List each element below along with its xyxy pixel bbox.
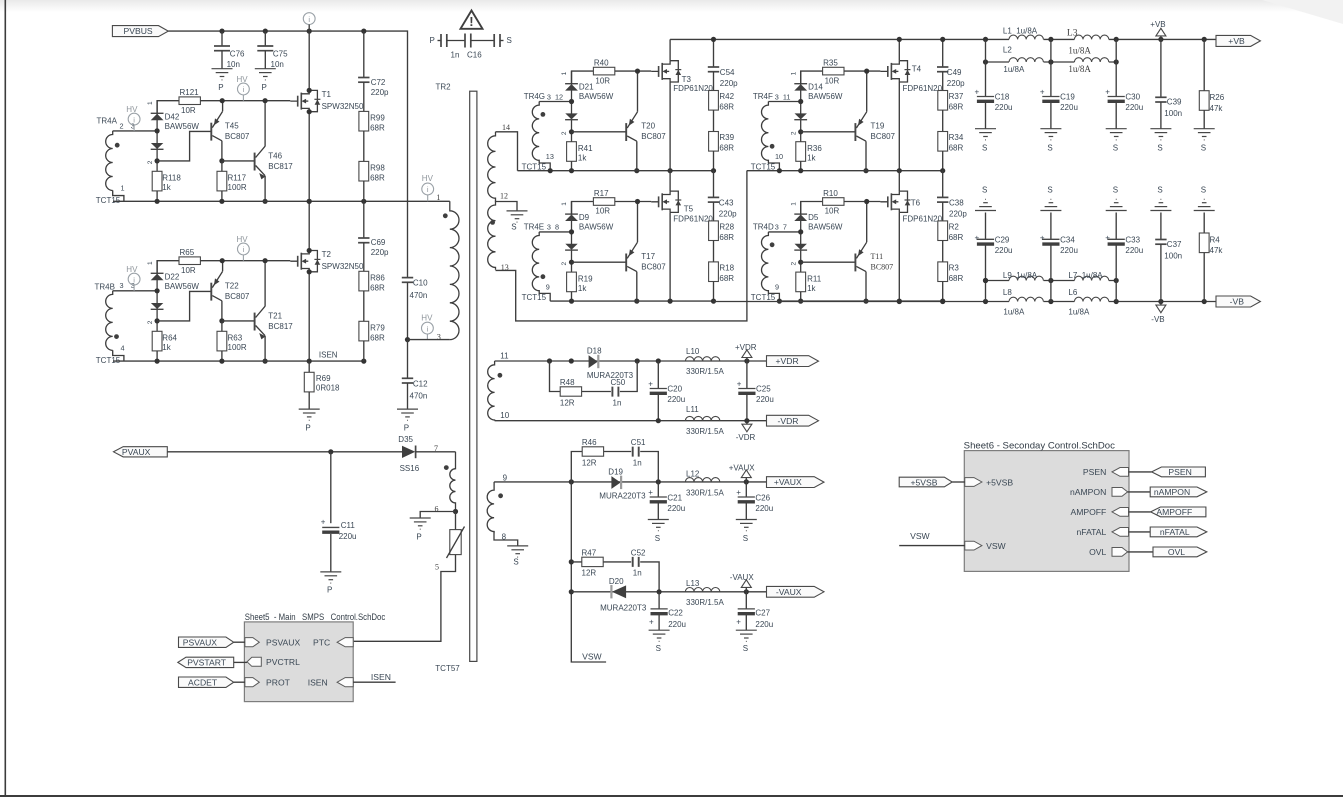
svg-text:T1: T1 [322, 90, 332, 99]
svg-text:0R018: 0R018 [316, 384, 340, 393]
resistor R79 [359, 321, 385, 361]
svg-text:3 11: 3 11 [775, 92, 791, 101]
svg-text:R28: R28 [719, 223, 734, 232]
wire to gate [615, 201, 651, 203]
svg-text:nAMPON: nAMPON [1070, 487, 1106, 497]
capacitor C50 [611, 378, 626, 407]
junction T22 emitter-rail [220, 258, 225, 263]
diode pair D5 BAW56W [794, 202, 843, 273]
svg-text:S: S [511, 222, 516, 231]
svg-text:C75: C75 [273, 50, 288, 59]
svg-text:330R/1.5A: 330R/1.5A [686, 427, 724, 436]
junction rail-R11 [798, 299, 803, 304]
svg-text:2: 2 [561, 262, 568, 266]
svg-text:+: + [736, 488, 741, 497]
snubber: capacitor C49 [937, 39, 965, 90]
svg-text:TR4D: TR4D [753, 222, 774, 231]
svg-text:3: 3 [120, 281, 124, 290]
junction node2 [798, 129, 803, 134]
svg-text:P: P [416, 533, 421, 542]
transformer TR4B [95, 281, 135, 361]
svg-text:R19: R19 [578, 274, 593, 283]
wire to gate [615, 70, 651, 72]
svg-text:AMPOFF: AMPOFF [1070, 507, 1106, 517]
svg-text:T45: T45 [225, 121, 239, 130]
svg-text:+VAUX: +VAUX [774, 477, 802, 487]
transistor T11 BC807 [855, 202, 893, 302]
svg-text:3 7: 3 7 [775, 223, 787, 232]
junction 9-+VAUX [744, 479, 749, 484]
svg-text:+: + [1105, 87, 1110, 96]
ground S inv over C37 [1150, 185, 1171, 210]
winding TR2 aux 11-10 [488, 352, 510, 421]
junction botT6 [897, 299, 902, 304]
junction L2a [983, 59, 988, 64]
svg-text:+: + [321, 518, 326, 527]
sheet left border [4, 0, 6, 796]
port +VB [1216, 35, 1260, 46]
transistor T46 BC817 [255, 101, 294, 202]
port PVSTART [178, 657, 247, 667]
transistor T21 BC817 [255, 261, 294, 361]
svg-text:2: 2 [147, 160, 154, 164]
ground S under C18 [975, 129, 996, 153]
svg-text:S: S [1157, 143, 1162, 152]
junction T2 source [307, 269, 312, 274]
junction rail-snubber [711, 299, 716, 304]
svg-text:T3: T3 [682, 75, 692, 84]
svg-text:TCT15: TCT15 [522, 293, 547, 302]
ground S at pin8 [507, 546, 528, 566]
svg-text:PSEN: PSEN [1168, 467, 1191, 477]
snubber: capacitor C38 [937, 170, 967, 221]
capacitor C18 [975, 39, 1013, 128]
sheet pin nFATAL [1077, 527, 1129, 537]
junction D14 mid [798, 99, 803, 104]
diode pair D14 BAW56W [794, 71, 843, 142]
power symbol +VB [1150, 20, 1166, 39]
junction node2 [569, 260, 574, 265]
resistor R98 [359, 161, 385, 201]
junction isen-T2 source [307, 359, 312, 364]
svg-text:10: 10 [775, 152, 783, 161]
svg-text:47k: 47k [1210, 104, 1224, 113]
wire to gate [844, 201, 880, 203]
svg-text:C27: C27 [755, 608, 770, 617]
svg-text:TR4E: TR4E [524, 222, 544, 231]
svg-text:1k: 1k [578, 284, 587, 293]
inductor L2 [1003, 45, 1044, 74]
svg-text:3 12: 3 12 [547, 92, 563, 101]
svg-text:+VAUX: +VAUX [729, 463, 756, 472]
svg-text:+: + [649, 618, 654, 627]
svg-text:S: S [1113, 185, 1118, 194]
svg-text:11: 11 [500, 352, 509, 361]
svg-text:1: 1 [147, 101, 154, 105]
port -VDR [767, 415, 819, 426]
capacitor C21 [648, 482, 685, 520]
junction rail-fet source [668, 299, 673, 304]
svg-text:ISEN: ISEN [308, 678, 328, 688]
svg-text:+: + [736, 618, 741, 627]
resistor R19 [567, 272, 594, 301]
mosfet T6 FDP61N20 [880, 191, 942, 224]
svg-text:330R/1.5A: 330R/1.5A [686, 488, 724, 497]
capacitor C10 [402, 278, 428, 340]
snubber branch R47/C52 [571, 562, 659, 592]
svg-text:VSW: VSW [582, 652, 602, 662]
ground S under C27 [736, 630, 757, 653]
svg-text:MURA220T3: MURA220T3 [599, 491, 646, 500]
junction botL6b [1114, 299, 1119, 304]
svg-text:C21: C21 [667, 494, 682, 503]
svg-text:10R: 10R [825, 207, 840, 216]
junction topC54 [711, 37, 716, 42]
svg-text:TR2: TR2 [436, 82, 452, 91]
svg-text:C69: C69 [371, 238, 386, 247]
svg-text:R69: R69 [316, 374, 331, 383]
transistor T22 BC807 [211, 261, 250, 321]
svg-text:47k: 47k [1210, 246, 1224, 255]
wire PVAUX to D35 [167, 451, 402, 453]
svg-text:BAW56W: BAW56W [808, 92, 843, 101]
wire VSW input [899, 531, 965, 545]
wire T4 source [898, 82, 900, 171]
svg-text:R121: R121 [180, 88, 200, 97]
snubber branch R46/C51 [571, 452, 658, 482]
svg-text:1: 1 [790, 71, 797, 75]
svg-text:PSEN: PSEN [1083, 467, 1106, 477]
mosfet T2 SPW32N50 [290, 201, 364, 361]
inductor L13 [685, 579, 724, 607]
svg-text:+: + [1040, 87, 1045, 96]
svg-text:+5VSB: +5VSB [911, 477, 938, 487]
snubber branch R48/C50 [550, 361, 638, 392]
svg-text:220p: 220p [371, 248, 389, 257]
svg-text:+: + [975, 87, 980, 96]
junction T2 drain-rail [307, 199, 312, 204]
resistor R118 [152, 171, 181, 201]
svg-text:R39: R39 [719, 133, 734, 142]
svg-text:C39: C39 [1167, 98, 1182, 107]
svg-text:R86: R86 [370, 274, 385, 283]
svg-text:68R: 68R [719, 274, 734, 283]
svg-text:68R: 68R [370, 123, 385, 132]
power symbol -VB [1151, 302, 1166, 324]
sheet pin PTC [313, 638, 353, 648]
junction L2b [1048, 59, 1053, 64]
svg-text:68R: 68R [370, 283, 385, 292]
wire T3 drain [669, 39, 671, 60]
junction 9-C21 [656, 479, 661, 484]
ground S under R26 [1194, 129, 1215, 153]
svg-text:-VB: -VB [1230, 297, 1245, 307]
junction isen-R79 [361, 359, 366, 364]
svg-text:OVL: OVL [1168, 547, 1185, 557]
svg-text:T4: T4 [912, 65, 922, 74]
resistor R37 [938, 91, 964, 112]
svg-text:1: 1 [436, 193, 440, 202]
svg-text:C20: C20 [667, 385, 682, 394]
wire PVBUS rail [168, 31, 407, 278]
svg-text:D42: D42 [165, 112, 180, 121]
svg-text:+: + [648, 488, 653, 497]
junction 11-C20 [656, 358, 661, 363]
diode pair D21 BAW56W [565, 71, 614, 142]
wire TR4E top to diode node [539, 231, 571, 233]
capacitor C39 [1155, 39, 1182, 128]
capacitor C27 [736, 592, 773, 630]
junction 10--VDR [744, 418, 749, 423]
snubber column A: capacitor C72 [358, 31, 389, 111]
wire base T46 [222, 160, 255, 162]
ground S inv over C29 [975, 185, 996, 210]
svg-text:C29: C29 [995, 235, 1010, 244]
svg-text:C22: C22 [668, 608, 683, 617]
sheet pin PSVAUX [245, 638, 301, 648]
inductor L12 [685, 469, 724, 497]
svg-text:10R: 10R [825, 76, 840, 85]
junction -vaux-port [744, 589, 749, 594]
resistor R42 [709, 91, 735, 112]
wire mid rail (TCT15 A / TR2 pin1) [113, 200, 450, 202]
resistor R39 [709, 132, 735, 171]
wire pin11 rail [495, 360, 767, 362]
wire TR4F top to diode node [768, 101, 800, 103]
power symbol +VDR [735, 343, 757, 361]
sheet pin PROT [245, 678, 291, 688]
svg-text:-VDR: -VDR [736, 433, 756, 442]
svg-text:PSVAUX: PSVAUX [266, 638, 300, 648]
wire cell bottom rail [518, 170, 714, 172]
resistor R64 [152, 331, 177, 361]
junction T21 emitter-rail [263, 359, 268, 364]
svg-text:T17: T17 [641, 252, 655, 261]
svg-text:10R: 10R [595, 76, 610, 85]
svg-text:68R: 68R [719, 233, 734, 242]
wire base T11 [801, 261, 856, 263]
junction L4b [1114, 59, 1119, 64]
svg-text:L8: L8 [1003, 288, 1012, 297]
resistor R40 [593, 59, 614, 86]
svg-text:470n: 470n [410, 392, 428, 401]
svg-text:HV: HV [422, 174, 434, 183]
svg-text:FDP61N20: FDP61N20 [903, 84, 943, 93]
svg-text:PVSTART: PVSTART [187, 658, 227, 668]
svg-text:100n: 100n [1164, 109, 1182, 118]
svg-text:-VB: -VB [1151, 315, 1164, 324]
svg-text:1: 1 [790, 202, 797, 206]
junction T11 emitter-rail [864, 199, 869, 204]
resistor R69 shunt [304, 361, 340, 409]
svg-text:OVL: OVL [1089, 547, 1106, 557]
svg-text:R41: R41 [578, 144, 593, 153]
svg-text:S: S [1047, 143, 1052, 152]
junction rail-snubber [940, 168, 945, 173]
transistor T45 BC807 [211, 101, 250, 161]
svg-text:C19: C19 [1060, 93, 1075, 102]
ground P under C11 [320, 572, 341, 595]
port PSVAUX [179, 637, 245, 648]
svg-text:FDP61N20: FDP61N20 [673, 84, 713, 93]
probe HV at gate rail A [237, 75, 250, 101]
svg-text:2: 2 [561, 131, 568, 135]
resistor R26 [1199, 39, 1224, 128]
svg-text:2: 2 [147, 320, 154, 324]
port ACDET [179, 677, 245, 688]
svg-text:1n: 1n [451, 51, 460, 60]
junction topL3b [1114, 37, 1119, 42]
junction T1 drain [307, 88, 312, 93]
junction T1 source [307, 109, 312, 114]
svg-text:68R: 68R [949, 274, 964, 283]
svg-text:PTC: PTC [313, 638, 330, 648]
svg-text:10n: 10n [271, 60, 284, 69]
junction T45 collector node [219, 158, 224, 163]
svg-text:BC807: BC807 [225, 292, 250, 301]
wire ISEN rail [113, 360, 366, 362]
port -VB [1216, 296, 1260, 307]
svg-text:2: 2 [790, 262, 797, 266]
wire base T45 [157, 131, 211, 161]
svg-text:R36: R36 [807, 144, 822, 153]
sheet bottom border [0, 795, 1343, 797]
junction T21 collector-rail [263, 258, 268, 263]
svg-text:D22: D22 [165, 272, 180, 281]
svg-text:TR4F: TR4F [753, 92, 773, 101]
svg-text:12: 12 [500, 191, 508, 200]
resistor R86 [359, 271, 385, 292]
junction topR26 [1202, 37, 1207, 42]
svg-text:C72: C72 [371, 78, 386, 87]
wire TR4G top to diode node [539, 101, 571, 103]
snubber: capacitor C43 [708, 170, 737, 221]
svg-text:1u/8A: 1u/8A [1003, 65, 1025, 74]
wire gate rail [801, 202, 823, 215]
wire T5 source [669, 212, 671, 301]
svg-text:C49: C49 [947, 68, 962, 77]
resistor R18 [709, 262, 735, 301]
junction rail-fet source [668, 168, 673, 173]
svg-text:S: S [743, 644, 748, 653]
port nAMPON [1128, 487, 1207, 497]
svg-text:BAW56W: BAW56W [579, 223, 614, 232]
port AMPOFF [1129, 507, 1206, 517]
wire T6 source [898, 212, 900, 301]
resistor R99 [359, 111, 385, 132]
svg-text:D35: D35 [398, 435, 413, 444]
wire between snubber resistors [942, 110, 944, 131]
svg-text:PVBUS: PVBUS [124, 26, 153, 36]
junction rail-fet source [897, 299, 902, 304]
svg-text:R35: R35 [823, 59, 838, 68]
junction L7b [1114, 278, 1119, 283]
svg-text:L7 1u/8A: L7 1u/8A [1068, 271, 1103, 280]
svg-text:P: P [430, 36, 435, 45]
junction D42 mid [155, 128, 160, 133]
transformer TR4G [524, 92, 563, 171]
svg-text:BC817: BC817 [268, 322, 293, 331]
sheet pin nAMPON [1070, 487, 1128, 497]
svg-text:12R: 12R [582, 458, 597, 467]
svg-text:C37: C37 [1167, 240, 1182, 249]
svg-text:2: 2 [120, 121, 124, 130]
power symbol -VDR [736, 421, 756, 443]
svg-text:C51: C51 [631, 438, 646, 447]
svg-text:P: P [404, 423, 409, 432]
junction 10-C20 [656, 418, 661, 423]
svg-text:TR4G: TR4G [524, 92, 545, 101]
capacitor C16 Y-cap assembly [430, 34, 512, 60]
ground P under C12 [397, 409, 418, 432]
svg-text:2: 2 [790, 131, 797, 135]
inductor L4 [1068, 46, 1108, 75]
sheet pin VSW [965, 541, 1007, 551]
svg-text:T46: T46 [268, 152, 282, 161]
junction D5 mid [798, 229, 803, 234]
svg-text:R40: R40 [594, 59, 609, 68]
junction T20 emitter-rail [635, 69, 640, 74]
svg-text:FDP61N20: FDP61N20 [673, 215, 713, 224]
svg-text:C12: C12 [413, 379, 428, 388]
snubber: capacitor C54 [708, 39, 738, 90]
wire L9 rail [986, 280, 1117, 282]
junction botL8a [983, 299, 988, 304]
svg-text:S: S [982, 143, 987, 152]
resistor R2 [938, 221, 964, 242]
ground P under C75 [255, 69, 276, 92]
wire gate rail A [157, 101, 179, 114]
svg-text:+VB: +VB [1150, 20, 1165, 29]
svg-text:1: 1 [561, 71, 568, 75]
svg-text:VSW: VSW [986, 541, 1006, 551]
diode D19 MURA220T3 [599, 467, 646, 500]
svg-text:+VB: +VB [1228, 36, 1245, 46]
svg-text:BC807: BC807 [871, 263, 894, 272]
capacitor C51 [631, 438, 646, 467]
capacitor C76 [214, 31, 245, 69]
junction PVBUS-C75 [263, 29, 268, 34]
svg-text:3 8: 3 8 [547, 223, 559, 232]
svg-text:MURA220T3: MURA220T3 [600, 604, 647, 613]
winding TR2 aux 7-6-5 [434, 444, 456, 572]
svg-text:220u: 220u [755, 620, 773, 629]
svg-text:1k: 1k [807, 154, 816, 163]
svg-text:R34: R34 [949, 133, 964, 142]
wire -VB bottom rail [714, 301, 1217, 303]
wire T5 drain [669, 170, 671, 191]
wire pin10 rail [495, 420, 767, 422]
svg-text:10R: 10R [181, 106, 196, 115]
svg-text:220u: 220u [339, 532, 357, 541]
junction rail-fet source [897, 168, 902, 173]
ground S under C19 [1040, 129, 1061, 153]
wire to gate [844, 70, 880, 72]
junction rail-R19 [569, 299, 574, 304]
wire gate rail [801, 71, 823, 84]
svg-text:100R: 100R [228, 343, 247, 352]
svg-text:C43: C43 [719, 199, 734, 208]
junction PVBUS-T1 drain [307, 29, 312, 34]
svg-text:P: P [305, 423, 310, 432]
svg-text:!: ! [469, 14, 473, 29]
top-right page corner shade [1262, 0, 1343, 24]
svg-text:C76: C76 [230, 50, 245, 59]
svg-text:R4: R4 [1210, 236, 1221, 245]
junction rail-winding [777, 168, 782, 173]
resistor R36 [796, 142, 823, 171]
svg-text:BAW56W: BAW56W [165, 122, 200, 131]
